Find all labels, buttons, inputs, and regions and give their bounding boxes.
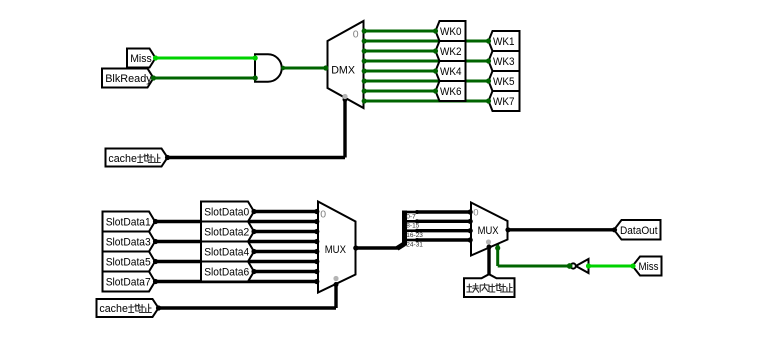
svg-text:SlotData1: SlotData1 (106, 217, 151, 229)
svg-text:SlotData2: SlotData2 (204, 227, 249, 239)
svg-text:0-7: 0-7 (406, 213, 416, 220)
svg-text:WK0: WK0 (440, 26, 462, 38)
svg-text:MUX: MUX (325, 244, 347, 256)
svg-text:0: 0 (320, 209, 326, 221)
svg-text:24-31: 24-31 (406, 241, 423, 248)
svg-text:WK6: WK6 (440, 86, 462, 98)
svg-text:cache: cache (99, 303, 128, 315)
svg-text:16-23: 16-23 (406, 232, 423, 239)
svg-text:SlotData6: SlotData6 (204, 267, 249, 279)
svg-text:SlotData7: SlotData7 (106, 277, 151, 289)
svg-text:WK7: WK7 (493, 96, 515, 108)
svg-text:BlkReady: BlkReady (105, 73, 152, 85)
svg-text:WK1: WK1 (493, 36, 515, 48)
svg-text:0: 0 (353, 29, 359, 41)
svg-text:Miss: Miss (639, 261, 659, 273)
svg-text:SlotData5: SlotData5 (106, 257, 151, 269)
svg-text:8-15: 8-15 (406, 223, 419, 230)
svg-text:WK2: WK2 (440, 46, 462, 58)
svg-text:WK5: WK5 (493, 76, 515, 88)
svg-text:0: 0 (473, 207, 478, 218)
svg-text:cache: cache (108, 153, 136, 165)
svg-text:DMX: DMX (331, 64, 355, 76)
svg-text:WK4: WK4 (440, 66, 462, 78)
svg-text:SlotData3: SlotData3 (106, 237, 151, 249)
svg-text:SlotData0: SlotData0 (204, 207, 249, 219)
svg-text:WK3: WK3 (493, 56, 515, 68)
svg-text:Miss: Miss (130, 53, 152, 65)
svg-text:MUX: MUX (478, 225, 500, 237)
svg-text:SlotData4: SlotData4 (204, 247, 249, 259)
svg-text:DataOut: DataOut (620, 225, 658, 237)
